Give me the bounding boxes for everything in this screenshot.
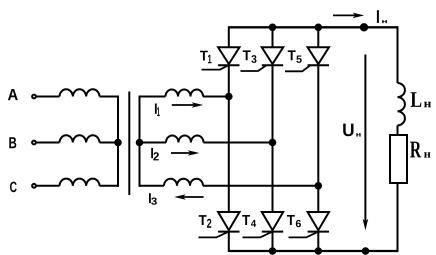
thyristor T2 [199, 212, 240, 237]
wire T1 to node 1 [228, 65, 230, 212]
label T2 [199, 215, 212, 228]
current arrow I2 [171, 150, 199, 156]
label Ln [411, 92, 431, 107]
wire inductor to resistor [397, 125, 399, 135]
primary winding C [60, 179, 100, 186]
thyristor T6 [289, 212, 330, 237]
node 1 junction [226, 94, 232, 100]
phase label B [9, 137, 16, 148]
current label I3 [149, 193, 157, 205]
phase label A [8, 89, 18, 100]
wire bus to secondary winding 3 [140, 185, 165, 187]
label T3 [243, 50, 257, 62]
wire B to winding [36, 142, 60, 144]
wire winding C to bus [100, 185, 120, 187]
negative rail bottom [229, 250, 398, 252]
load current arrow In [333, 13, 364, 19]
wire resistor to bottom rail [397, 183, 399, 252]
positive rail top [229, 26, 398, 28]
wire winding 1 to node 1 [203, 96, 229, 98]
secondary winding 2 [166, 136, 204, 143]
label T6 [287, 215, 301, 227]
wire A to winding [36, 96, 60, 98]
inductor Ln [398, 83, 405, 125]
thyristor T1 [202, 47, 240, 69]
label Rn [410, 142, 430, 158]
resistor Rn [390, 135, 407, 183]
wire winding B to bus [100, 142, 119, 144]
secondary winding 1 [166, 90, 204, 97]
junction rail T5 [316, 25, 322, 31]
primary winding B [60, 135, 100, 142]
primary star bus [117, 96, 119, 187]
junction primary B [115, 140, 121, 146]
wire winding A to bus [100, 96, 120, 98]
wire T2 to rail [228, 232, 230, 252]
junction rail load tap top [361, 24, 367, 30]
load current label In [377, 10, 387, 23]
wire winding 3 to node 3 [203, 185, 318, 187]
primary winding A [60, 89, 100, 96]
secondary bus [139, 96, 141, 187]
current arrow I3 [174, 194, 203, 200]
wire T5 to node 3 [317, 65, 319, 212]
terminal B [32, 141, 36, 145]
wire bus to secondary winding 2 [140, 142, 167, 144]
current label I2 [151, 148, 159, 161]
wire T6 to rail [317, 232, 319, 252]
terminal A [32, 95, 36, 99]
wire rail to T1 [228, 26, 230, 47]
junction secondary 2 [137, 140, 143, 146]
thyristor T4 [243, 212, 284, 237]
terminal C [32, 184, 36, 188]
current arrow I1 [172, 102, 203, 108]
phase label C [10, 182, 17, 193]
node 2 junction [270, 140, 276, 146]
wire rail to T3 [272, 27, 274, 47]
transformer core [128, 92, 130, 196]
wire T3 to node 2 [272, 65, 274, 212]
label T1 [200, 51, 212, 64]
wire C to winding [36, 185, 60, 187]
secondary winding 3 [164, 179, 203, 186]
wire winding 2 to node 2 [204, 142, 273, 144]
voltage arrow Un [363, 55, 369, 231]
current label I1 [155, 104, 160, 117]
thyristor T5 [285, 47, 329, 71]
node 3 junction [316, 183, 322, 189]
wire T4 to rail [272, 232, 274, 252]
voltage label Un [343, 124, 360, 137]
wire top rail to inductor [397, 26, 399, 83]
label T4 [242, 215, 256, 227]
wire bus to secondary winding 1 [140, 96, 166, 98]
thyristor T3 [241, 47, 284, 71]
junction rail T3 [270, 25, 276, 31]
label T5 [288, 50, 302, 63]
junction rail load tap bottom [363, 248, 369, 254]
wire rail to T5 [317, 27, 319, 47]
junction rail T4 [270, 248, 276, 254]
junction rail T6 [316, 248, 322, 254]
